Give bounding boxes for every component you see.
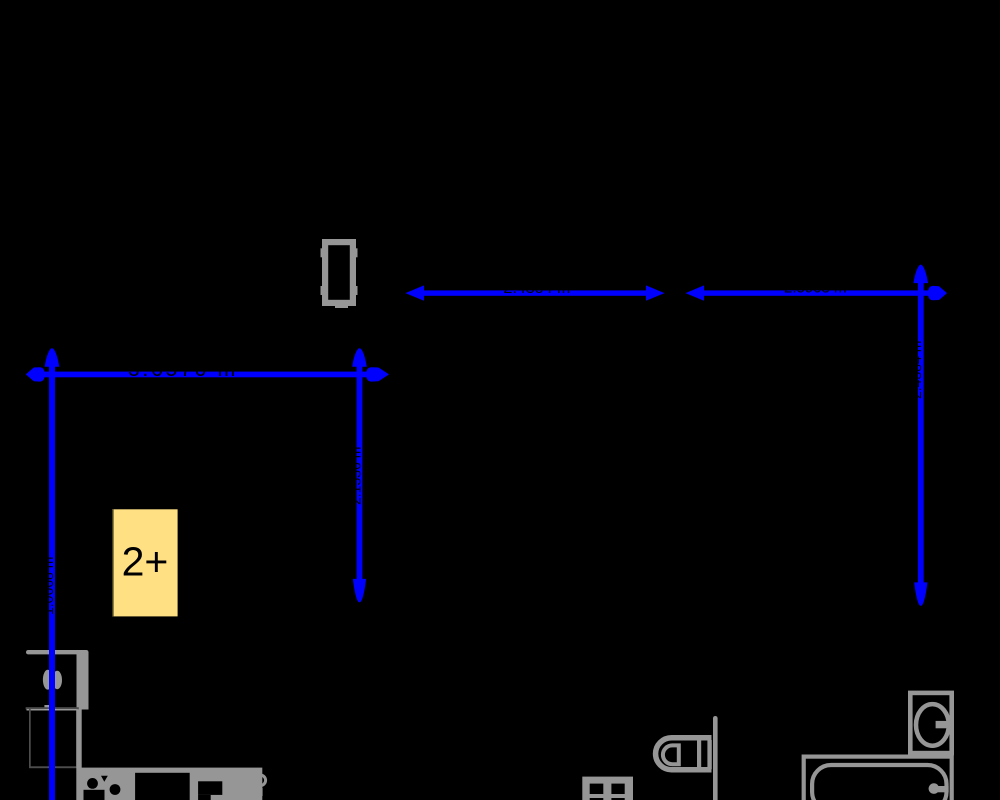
arrow D left triangle head — [405, 285, 424, 300]
bathroom sink basin — [916, 704, 949, 746]
arrow C shaft — [357, 360, 363, 582]
kitchen counter right bar — [77, 652, 89, 710]
arrow D right triangle head — [646, 285, 665, 300]
arrow B up cone head — [45, 348, 60, 366]
svg-text:2.5908 m: 2.5908 m — [784, 279, 847, 296]
kitchen counter top bar — [26, 650, 89, 710]
arrow E right bullet head — [928, 286, 947, 300]
svg-text:1.0668 m: 1.0668 m — [40, 557, 56, 615]
arrow A right bullet head — [366, 367, 389, 381]
svg-text:2.4384 m: 2.4384 m — [908, 341, 924, 399]
counter band — [76, 768, 262, 800]
burner oval right — [52, 671, 62, 689]
toilet tank bars — [697, 740, 712, 769]
bathroom sink faucet — [936, 721, 952, 728]
svg-text:2.1336 m: 2.1336 m — [348, 447, 364, 505]
bathroom sink box — [910, 693, 951, 753]
arrow B shaft — [49, 360, 55, 800]
counter left vertical bar — [76, 710, 262, 800]
toilet wall line — [713, 716, 718, 800]
svg-text:2+: 2+ — [122, 539, 169, 585]
yellow room-label box — [112, 509, 178, 616]
arrow D shaft — [418, 290, 652, 295]
window W1 (gray rectangle top) — [321, 239, 358, 308]
bathtub inner — [812, 765, 946, 800]
bathtub outer — [804, 757, 952, 800]
cabinet dark bottom line — [29, 766, 76, 768]
arrow F up cone head — [914, 265, 929, 283]
cabinet dark left line — [29, 709, 31, 767]
arrow C up cone head — [352, 348, 367, 366]
counter faucet — [255, 775, 266, 796]
bathtub faucet — [929, 783, 949, 794]
small square on cabinet line — [44, 705, 51, 709]
burner oval left — [43, 670, 53, 690]
arrow F down cone head — [914, 582, 927, 605]
arrow A left bullet head — [26, 367, 45, 381]
toilet bowl inner — [663, 745, 679, 764]
arrow E shaft — [698, 290, 932, 295]
toilet bowl outer — [656, 738, 712, 770]
svg-text:2.4384 m: 2.4384 m — [504, 280, 571, 297]
floor drain square — [582, 777, 633, 800]
svg-text:3.6576 m: 3.6576 m — [128, 358, 238, 381]
arrow F shaft — [918, 280, 924, 586]
dimension arrows — [26, 265, 947, 800]
arrow C down cone head — [353, 579, 366, 602]
cabinet dark top line — [26, 707, 79, 709]
counter cutouts — [84, 773, 223, 800]
arrow E left triangle head — [686, 285, 705, 300]
arrow A shaft — [38, 372, 374, 378]
